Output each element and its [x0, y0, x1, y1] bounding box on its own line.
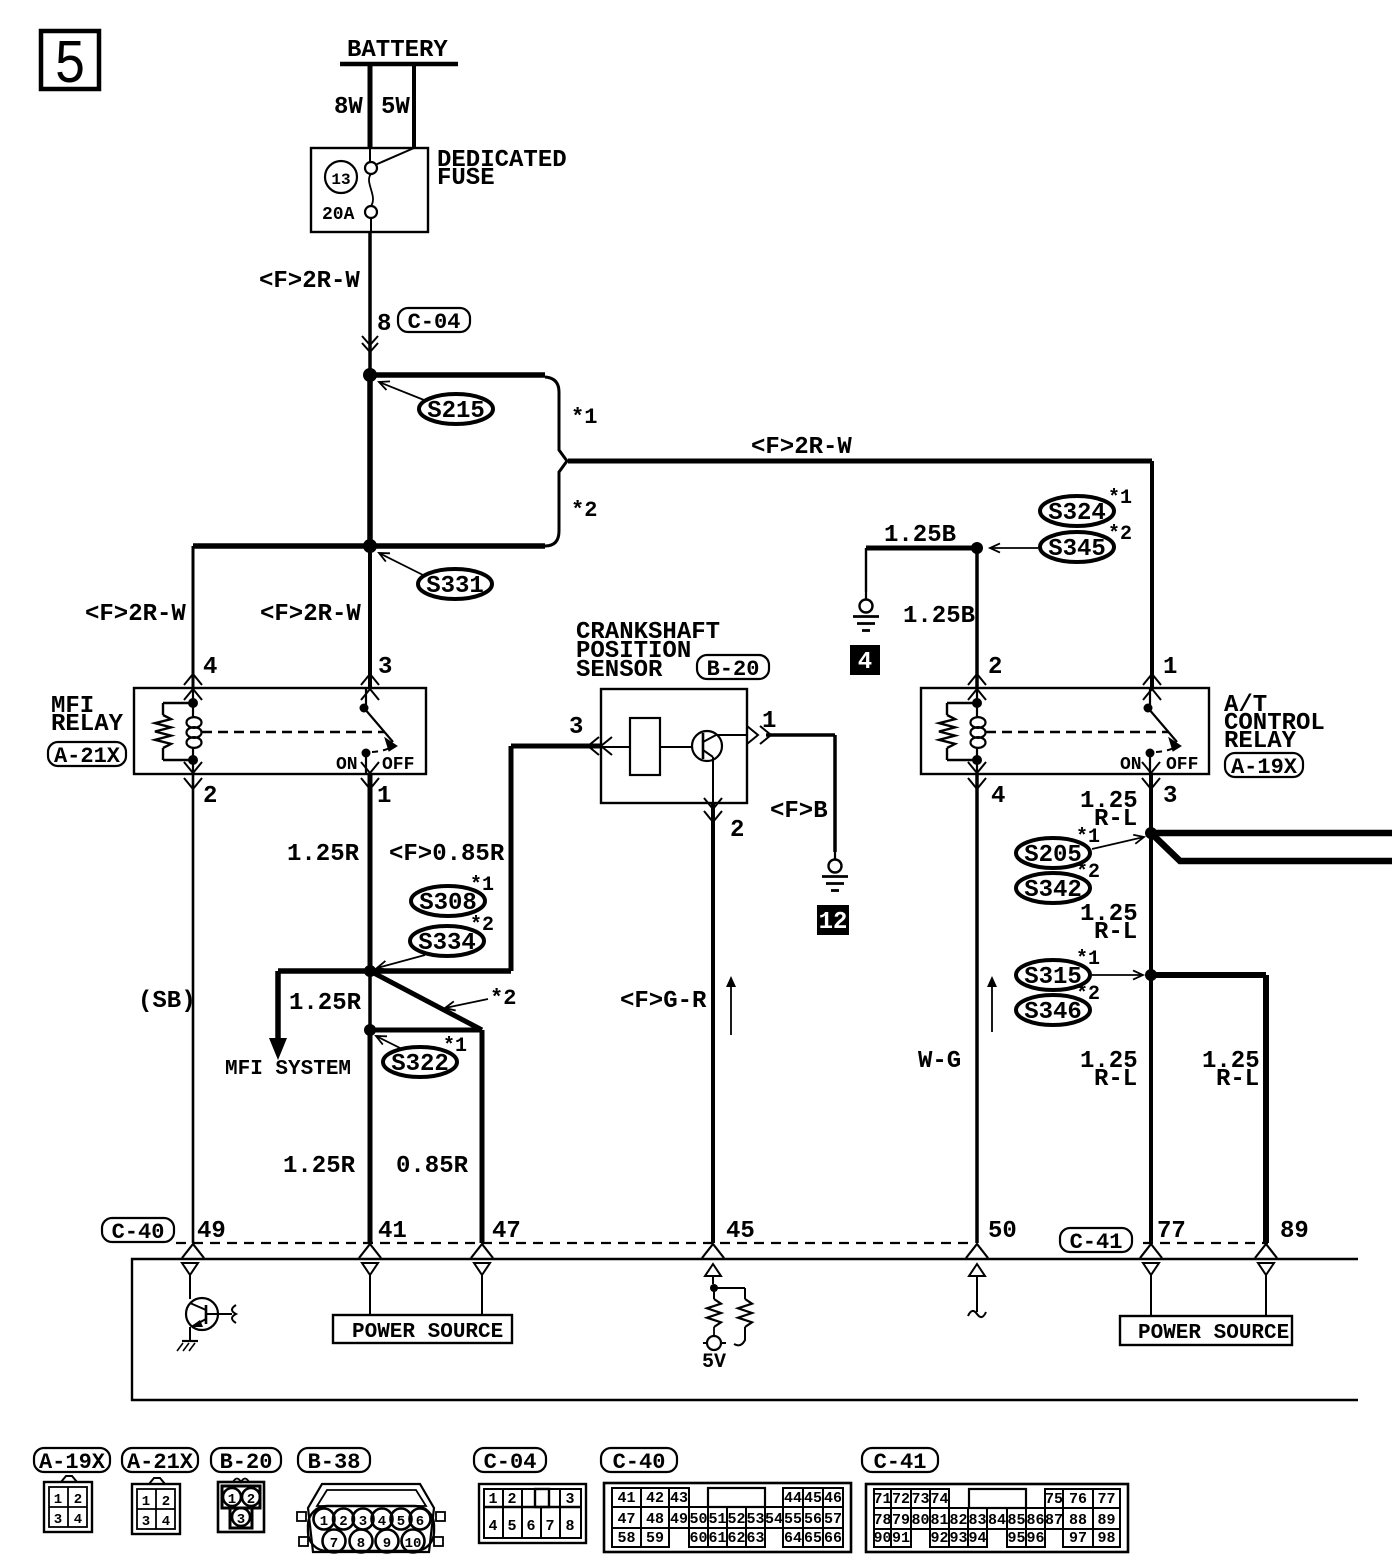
- svg-text:3: 3: [54, 1512, 62, 1528]
- svg-text:94: 94: [968, 1530, 986, 1547]
- svg-text:POWER SOURCE: POWER SOURCE: [1138, 1322, 1289, 1345]
- svg-text:*1: *1: [1076, 948, 1100, 971]
- svg-text:<F>B: <F>B: [770, 798, 828, 825]
- svg-text:B-20: B-20: [220, 1450, 273, 1475]
- svg-text:S345: S345: [1048, 536, 1106, 563]
- svg-text:1.25R: 1.25R: [287, 841, 360, 868]
- node S215 junction: [363, 368, 377, 382]
- svg-text:SENSOR: SENSOR: [576, 657, 663, 684]
- wire between S308 and S322 junctions: [368, 971, 372, 1030]
- svg-text:41: 41: [617, 1490, 635, 1507]
- svg-text:49: 49: [197, 1218, 226, 1245]
- connector ref C-40: [102, 1218, 174, 1242]
- MFI relay coil shunt resistor: [163, 702, 193, 704]
- wire below fuse (F)2R-W: [368, 232, 372, 371]
- A/T control relay coil: [976, 688, 978, 717]
- wire 0.85R to connector C-40 pin 47: [480, 1030, 485, 1243]
- svg-text:4: 4: [858, 649, 872, 676]
- svg-text:R-L: R-L: [1094, 919, 1137, 946]
- wire (F)2R-W to A/T control relay: [568, 459, 1152, 464]
- node S331 junction: [363, 539, 377, 553]
- svg-text:57: 57: [824, 1511, 842, 1528]
- svg-text:1: 1: [488, 1491, 497, 1508]
- svg-text:3: 3: [378, 654, 392, 681]
- svg-text:87: 87: [1045, 1512, 1063, 1529]
- svg-text:84: 84: [988, 1512, 1006, 1529]
- svg-text:7: 7: [545, 1518, 554, 1535]
- svg-text:<F>2R-W: <F>2R-W: [260, 601, 361, 628]
- A/T control relay box: [921, 688, 1209, 774]
- svg-text:MFI SYSTEM: MFI SYSTEM: [225, 1058, 351, 1081]
- svg-text:9: 9: [383, 1536, 391, 1552]
- svg-text:48: 48: [646, 1511, 664, 1528]
- direction arrow G-R: [730, 982, 732, 1035]
- sensor pickup element: [630, 718, 660, 775]
- pin 50 output triangle: [969, 1264, 985, 1276]
- svg-text:A-21X: A-21X: [54, 744, 121, 769]
- svg-text:2: 2: [74, 1492, 82, 1508]
- splice S205: [1016, 838, 1090, 868]
- splice S334: [410, 926, 484, 956]
- MFI relay box: [134, 688, 426, 774]
- svg-text:76: 76: [1069, 1491, 1087, 1508]
- svg-text:1: 1: [762, 708, 776, 735]
- svg-text:C-41: C-41: [874, 1450, 927, 1475]
- svg-text:91: 91: [892, 1530, 910, 1547]
- svg-text:80: 80: [911, 1512, 929, 1529]
- internal transistor: [189, 1275, 191, 1299]
- svg-text:1.25B: 1.25B: [903, 603, 975, 630]
- node S322 junction: [364, 1024, 376, 1036]
- internal solenoid driver wire: [976, 1276, 978, 1312]
- svg-text:88: 88: [1069, 1512, 1087, 1529]
- splice S322: [383, 1047, 457, 1077]
- svg-text:*2: *2: [490, 986, 516, 1011]
- engine control module box: [132, 1259, 1358, 1400]
- svg-text:*2: *2: [1076, 983, 1100, 1006]
- svg-text:(SB): (SB): [138, 988, 196, 1015]
- svg-text:60: 60: [689, 1530, 707, 1547]
- svg-text:S215: S215: [427, 398, 485, 425]
- dedicated fuse box: [311, 148, 428, 232]
- crankshaft position sensor body: [601, 689, 747, 803]
- svg-text:2: 2: [339, 1514, 347, 1530]
- svg-text:45: 45: [804, 1490, 822, 1507]
- node S324/S345 junction: [971, 542, 983, 554]
- svg-text:89: 89: [1280, 1218, 1309, 1245]
- svg-text:64: 64: [784, 1530, 802, 1547]
- svg-text:51: 51: [708, 1511, 726, 1528]
- svg-text:4: 4: [74, 1512, 82, 1528]
- svg-text:4: 4: [991, 783, 1005, 810]
- svg-text:5V: 5V: [702, 1351, 726, 1374]
- pin 45 output triangle: [705, 1264, 721, 1276]
- connector C-04 face: [479, 1484, 586, 1543]
- svg-text:2: 2: [507, 1491, 516, 1508]
- svg-text:3: 3: [565, 1491, 574, 1508]
- svg-text:B-38: B-38: [308, 1450, 361, 1475]
- svg-text:*1: *1: [443, 1035, 467, 1058]
- svg-text:1.25R: 1.25R: [289, 990, 362, 1017]
- svg-text:FUSE: FUSE: [437, 165, 495, 192]
- svg-text:50: 50: [689, 1511, 707, 1528]
- svg-text:1: 1: [142, 1494, 150, 1510]
- svg-text:5: 5: [54, 30, 86, 101]
- svg-text:<F>G-R: <F>G-R: [620, 988, 707, 1015]
- svg-text:8W: 8W: [334, 94, 363, 121]
- internal transistor ground: [182, 1340, 198, 1342]
- svg-text:49: 49: [670, 1511, 688, 1528]
- svg-text:65: 65: [804, 1530, 822, 1547]
- svg-text:66: 66: [824, 1530, 842, 1547]
- splice S345: [1040, 532, 1114, 562]
- svg-text:OFF: OFF: [1166, 755, 1198, 775]
- svg-text:98: 98: [1097, 1530, 1115, 1547]
- svg-text:C-40: C-40: [112, 1220, 165, 1245]
- svg-text:8: 8: [565, 1518, 574, 1535]
- 5V pull-up resistor: [713, 1288, 715, 1299]
- svg-text:4: 4: [378, 1514, 386, 1530]
- svg-text:A-19X: A-19X: [39, 1450, 106, 1475]
- svg-text:20A: 20A: [322, 205, 355, 225]
- fuse element: [375, 148, 414, 165]
- wire (F)B from sensor pin 1: [766, 733, 835, 737]
- wire 1.25R-L from A/T relay pin 3: [1149, 774, 1153, 1243]
- connector A-21X face: [132, 1484, 180, 1534]
- MFI relay switch: [365, 688, 367, 708]
- svg-text:2: 2: [247, 1492, 255, 1508]
- svg-text:55: 55: [784, 1511, 802, 1528]
- svg-text:50: 50: [988, 1218, 1017, 1245]
- wire (F)G-R to connector C-40 pin 45: [711, 803, 715, 1243]
- svg-text:C-41: C-41: [1070, 1230, 1123, 1255]
- svg-text:83: 83: [968, 1512, 986, 1529]
- svg-text:3: 3: [237, 1512, 245, 1528]
- svg-text:S315: S315: [1024, 964, 1082, 991]
- svg-text:*1: *1: [1108, 487, 1132, 510]
- wire 5W from battery: [412, 64, 416, 149]
- ground 12: [834, 852, 836, 860]
- svg-text:6: 6: [416, 1514, 424, 1530]
- svg-text:*1: *1: [571, 405, 597, 430]
- svg-text:86: 86: [1026, 1512, 1044, 1529]
- connector A-19X face: [44, 1482, 92, 1532]
- svg-text:13: 13: [331, 171, 350, 189]
- svg-text:43: 43: [670, 1490, 688, 1507]
- svg-text:3: 3: [569, 714, 583, 741]
- svg-text:1: 1: [1163, 654, 1177, 681]
- A/T control relay coil shunt resistor: [947, 702, 977, 704]
- fuse number circle 13: [325, 161, 357, 193]
- svg-text:3: 3: [359, 1514, 367, 1530]
- svg-text:RELAY: RELAY: [1224, 728, 1297, 755]
- wire down to A/T relay pin 1: [1150, 461, 1154, 688]
- power source box (right): [1120, 1316, 1292, 1345]
- page number box 5: [41, 31, 99, 89]
- svg-text:61: 61: [708, 1530, 726, 1547]
- svg-text:63: 63: [746, 1530, 764, 1547]
- connector ref C-40 (face view): [601, 1448, 677, 1472]
- ground ref 12: [817, 905, 849, 935]
- svg-text:5W: 5W: [381, 94, 410, 121]
- svg-text:1: 1: [320, 1514, 328, 1530]
- svg-text:4: 4: [488, 1518, 497, 1535]
- svg-text:*2: *2: [571, 498, 597, 523]
- connector C-40 keyway: [708, 1488, 765, 1507]
- svg-text:0.85R: 0.85R: [396, 1153, 469, 1180]
- A/T control relay switch: [1149, 688, 1151, 708]
- svg-text:<F>0.85R: <F>0.85R: [389, 841, 505, 868]
- pin 89 input triangle: [1258, 1263, 1274, 1275]
- splice S315: [1016, 960, 1090, 990]
- svg-text:1.25R: 1.25R: [283, 1153, 356, 1180]
- svg-text:*1: *1: [470, 874, 494, 897]
- svg-text:A-19X: A-19X: [1231, 755, 1298, 780]
- wire W-G from A/T relay pin 4: [975, 774, 979, 1243]
- MFI relay connector ref A-21X: [48, 742, 126, 766]
- svg-text:3: 3: [142, 1514, 150, 1530]
- splice S324: [1040, 496, 1114, 526]
- svg-text:89: 89: [1097, 1512, 1115, 1529]
- wire (F)0.85R from sensor pin 3: [511, 744, 601, 749]
- connector C-41 keyway: [969, 1489, 1026, 1508]
- connector line C-40/C-41 dashed: [176, 1242, 973, 1244]
- direction arrow W-G: [991, 982, 993, 1032]
- svg-text:ON: ON: [336, 755, 358, 775]
- svg-text:POWER SOURCE: POWER SOURCE: [352, 1321, 503, 1344]
- svg-text:*2: *2: [1076, 861, 1100, 884]
- svg-text:S331: S331: [426, 573, 484, 600]
- svg-text:59: 59: [646, 1530, 664, 1547]
- pin 41 input triangle: [362, 1263, 378, 1275]
- svg-text:S322: S322: [391, 1051, 449, 1078]
- svg-text:C-04: C-04: [408, 310, 461, 335]
- splice S215: [419, 394, 493, 424]
- svg-text:12: 12: [819, 909, 848, 936]
- svg-text:82: 82: [949, 1512, 967, 1529]
- svg-text:92: 92: [930, 1530, 948, 1547]
- connector ref A-19X (face view): [34, 1448, 110, 1472]
- svg-text:2: 2: [730, 817, 744, 844]
- svg-text:R-L: R-L: [1216, 1066, 1259, 1093]
- svg-text:2: 2: [988, 654, 1002, 681]
- wire 1.25R-L to next page (upper): [1151, 830, 1392, 837]
- svg-text:97: 97: [1069, 1530, 1087, 1547]
- svg-text:OFF: OFF: [382, 755, 414, 775]
- svg-text:85: 85: [1007, 1512, 1025, 1529]
- wire (F)2R-W to MFI relay pin 4: [192, 546, 195, 688]
- svg-text:56: 56: [804, 1511, 822, 1528]
- internal transistor base network: [206, 1313, 232, 1315]
- svg-text:77: 77: [1157, 1218, 1186, 1245]
- svg-text:8: 8: [377, 311, 391, 338]
- svg-text:41: 41: [378, 1218, 407, 1245]
- svg-text:S346: S346: [1024, 999, 1082, 1026]
- svg-text:7: 7: [330, 1536, 338, 1552]
- alternative wiring brace: [545, 377, 567, 546]
- splice S331: [418, 569, 492, 599]
- wire 1.25R from MFI relay pin 1: [368, 774, 373, 971]
- alternative *2 crossover wire: [370, 971, 482, 1030]
- A/T control relay actuation dashed link: [986, 731, 1169, 733]
- svg-text:S342: S342: [1024, 877, 1082, 904]
- svg-text:*2: *2: [1108, 523, 1132, 546]
- splice S342: [1016, 873, 1090, 903]
- wire 1.25R to MFI system: [275, 971, 281, 1040]
- wire (F)2R-W vertical trunk: [367, 375, 373, 546]
- wire 8W from battery: [368, 64, 373, 149]
- battery bus bar: [340, 62, 458, 67]
- svg-text:81: 81: [930, 1512, 948, 1529]
- svg-text:BATTERY: BATTERY: [347, 37, 448, 64]
- internal resistor to comparator: [714, 1287, 745, 1289]
- svg-text:*1: *1: [1076, 826, 1100, 849]
- svg-text:47: 47: [492, 1218, 521, 1245]
- pin 77 input triangle: [1143, 1263, 1159, 1275]
- svg-text:45: 45: [726, 1218, 755, 1245]
- svg-text:73: 73: [911, 1491, 929, 1508]
- svg-text:ON: ON: [1120, 755, 1142, 775]
- svg-text:RELAY: RELAY: [51, 711, 124, 738]
- svg-text:R-L: R-L: [1094, 806, 1137, 833]
- svg-text:62: 62: [727, 1530, 745, 1547]
- wire 1.25R to connector C-40 pin 41: [368, 1030, 373, 1243]
- svg-text:53: 53: [746, 1511, 764, 1528]
- svg-text:52: 52: [727, 1511, 745, 1528]
- svg-text:10: 10: [405, 1536, 422, 1552]
- svg-text:5: 5: [397, 1514, 405, 1530]
- svg-text:R-L: R-L: [1094, 1066, 1137, 1093]
- sensor connector ref B-20: [697, 655, 769, 679]
- splice S346: [1016, 995, 1090, 1025]
- svg-text:<F>2R-W: <F>2R-W: [259, 268, 360, 295]
- svg-text:A-21X: A-21X: [127, 1450, 194, 1475]
- wire (F)2R-W to MFI relay pin 3: [368, 546, 372, 688]
- svg-text:8: 8: [357, 1536, 365, 1552]
- svg-text:W-G: W-G: [918, 1048, 961, 1075]
- svg-text:72: 72: [892, 1491, 910, 1508]
- svg-text:4: 4: [203, 654, 217, 681]
- svg-text:79: 79: [892, 1512, 910, 1529]
- svg-text:S334: S334: [418, 930, 476, 957]
- ground 4: [865, 592, 867, 600]
- svg-text:95: 95: [1007, 1530, 1025, 1547]
- svg-text:C-04: C-04: [484, 1450, 537, 1475]
- MFI relay coil: [192, 688, 194, 717]
- wire 1.25R-L to next page (lower): [1151, 833, 1392, 861]
- svg-text:75: 75: [1045, 1491, 1063, 1508]
- svg-text:77: 77: [1097, 1491, 1115, 1508]
- svg-text:C-40: C-40: [613, 1450, 666, 1475]
- connector ref C-41 (face view): [862, 1448, 938, 1472]
- svg-text:78: 78: [873, 1512, 891, 1529]
- node S308 junction: [364, 965, 376, 977]
- sensor output transistor: [692, 731, 722, 761]
- svg-text:90: 90: [873, 1530, 891, 1547]
- svg-text:4: 4: [162, 1514, 170, 1530]
- svg-text:5: 5: [507, 1518, 516, 1535]
- svg-text:B-20: B-20: [707, 657, 760, 682]
- svg-text:47: 47: [617, 1511, 635, 1528]
- svg-text:1: 1: [377, 783, 391, 810]
- svg-text:74: 74: [930, 1491, 948, 1508]
- connector ref C-41: [1060, 1228, 1132, 1252]
- svg-text:<F>2R-W: <F>2R-W: [85, 601, 186, 628]
- pin 47 input triangle: [474, 1263, 490, 1275]
- svg-text:1: 1: [228, 1492, 236, 1508]
- svg-text:S324: S324: [1048, 500, 1106, 527]
- svg-text:S308: S308: [419, 890, 477, 917]
- svg-text:S205: S205: [1024, 842, 1082, 869]
- power source box (left): [333, 1315, 512, 1343]
- connector ref B-38 (face view): [298, 1448, 370, 1472]
- pin 49 input triangle: [182, 1263, 198, 1275]
- svg-text:6: 6: [526, 1518, 535, 1535]
- svg-text:2: 2: [162, 1494, 170, 1510]
- connector C-40 face: [604, 1483, 851, 1552]
- 5V reference node: [710, 1284, 718, 1292]
- in-line connector chevrons: [362, 336, 378, 345]
- ground ref 4: [850, 645, 880, 675]
- svg-text:93: 93: [949, 1530, 967, 1547]
- svg-text:<F>2R-W: <F>2R-W: [751, 434, 852, 461]
- connector C-41 face: [866, 1484, 1128, 1552]
- svg-text:2: 2: [203, 783, 217, 810]
- splice S308: [411, 886, 485, 916]
- connector ref B-20 (face view): [211, 1448, 281, 1472]
- wire 1.25B to ground: [866, 546, 977, 551]
- svg-text:46: 46: [824, 1490, 842, 1507]
- svg-text:1: 1: [54, 1492, 62, 1508]
- connector B-38 face: [308, 1484, 434, 1552]
- node S205 junction: [1145, 827, 1157, 839]
- wire (SB) from MFI relay pin 2: [192, 774, 195, 1243]
- svg-text:44: 44: [784, 1490, 802, 1507]
- svg-text:58: 58: [617, 1530, 635, 1547]
- wire 1.25R-L branch to pin 89: [1151, 972, 1266, 978]
- svg-text:3: 3: [1163, 783, 1177, 810]
- connector B-20 face: [218, 1482, 264, 1532]
- svg-text:54: 54: [765, 1511, 783, 1528]
- svg-text:1.25B: 1.25B: [884, 522, 956, 549]
- wire 1.25B to A/T relay pin 2: [975, 548, 979, 688]
- connector ref A-21X (face view): [122, 1448, 198, 1472]
- MFI relay actuation dashed link: [202, 731, 385, 733]
- node S315 junction: [1145, 969, 1157, 981]
- svg-text:*2: *2: [470, 914, 494, 937]
- A/T relay connector ref A-19X: [1225, 753, 1303, 777]
- svg-text:42: 42: [646, 1490, 664, 1507]
- svg-text:96: 96: [1026, 1530, 1044, 1547]
- svg-text:71: 71: [873, 1491, 891, 1508]
- connector ref C-04 (face view): [474, 1448, 546, 1472]
